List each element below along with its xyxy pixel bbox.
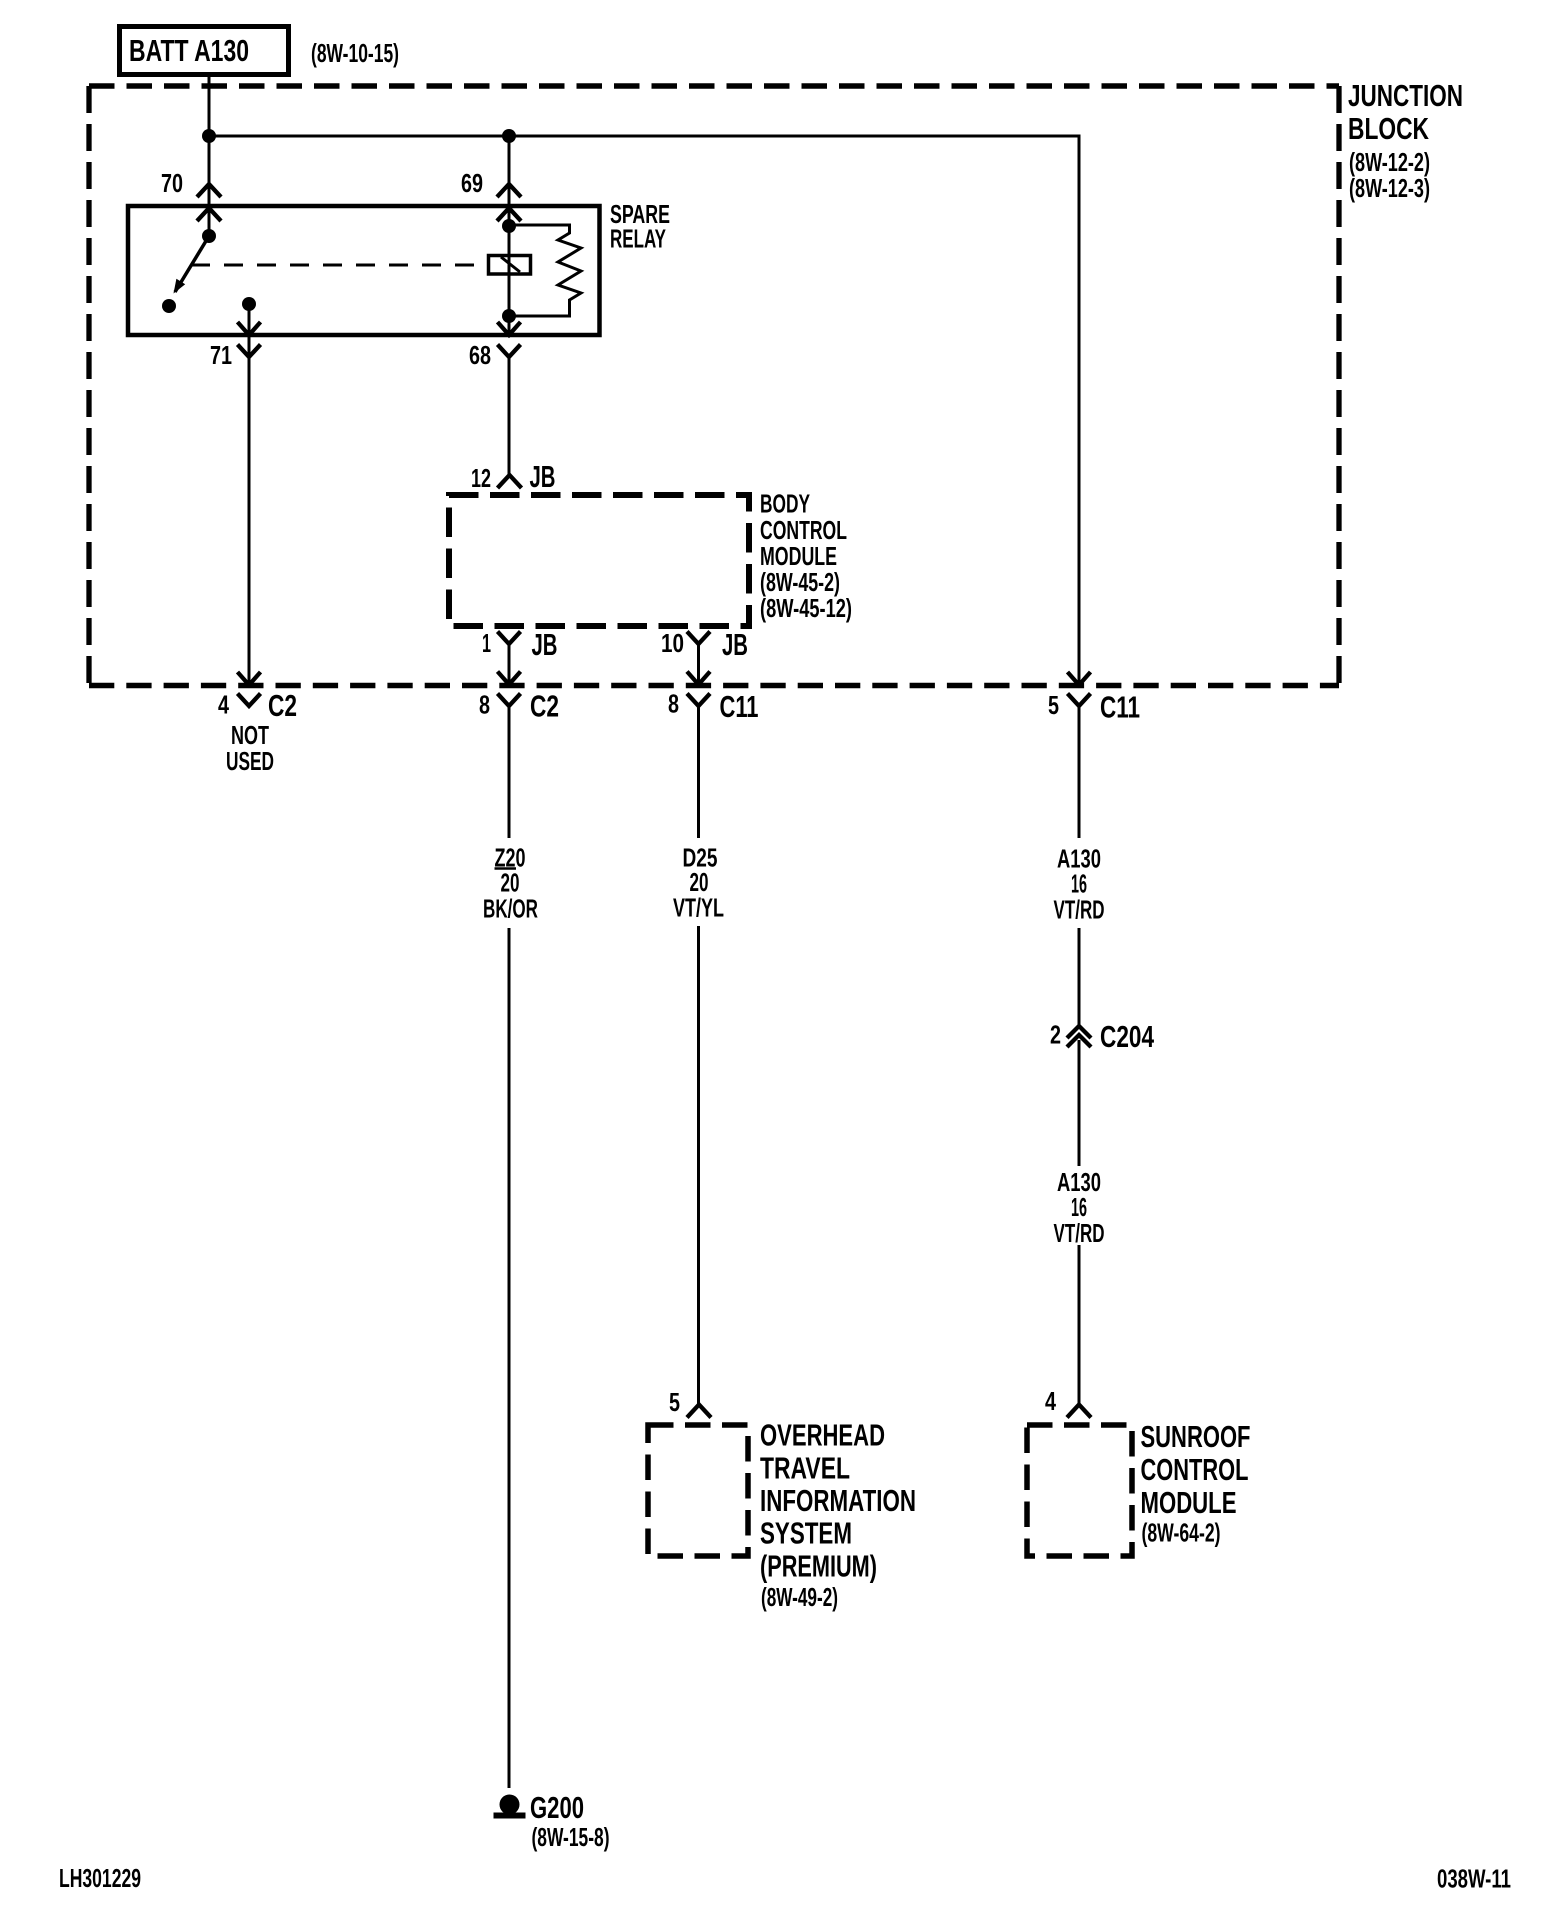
svg-text:BATT A130: BATT A130 [129,33,249,68]
overhead travel information system dashed box [648,1425,748,1556]
svg-text:OVERHEAD: OVERHEAD [760,1418,885,1453]
svg-text:JUNCTION: JUNCTION [1348,78,1463,113]
svg-text:5: 5 [669,1389,680,1417]
svg-text:JB: JB [530,459,556,494]
svg-text:VT/RD: VT/RD [1054,897,1105,925]
svg-text:8: 8 [668,691,679,719]
svg-text:LH301229: LH301229 [59,1865,141,1893]
ground G200 symbol [494,1795,526,1819]
svg-text:JB: JB [532,627,558,662]
svg-text:BODY: BODY [760,491,810,519]
wire Z20 ground run [508,928,511,1788]
svg-text:C204: C204 [1100,1019,1155,1054]
connector C204 pin 2 double chevron [1067,1026,1091,1047]
relay switch arm arrowhead [174,279,186,294]
svg-text:RELAY: RELAY [610,226,666,254]
svg-text:8: 8 [479,692,490,720]
relay coil bottom node [502,309,516,323]
svg-text:(8W-12-2): (8W-12-2) [1349,149,1430,177]
svg-text:A130: A130 [1057,846,1101,874]
OTIS module name [760,1418,916,1584]
pin 1 arrow at junction border [498,672,521,685]
pin 5 chevron OTIS [687,1405,711,1418]
pin 8 fork C11 [687,694,710,707]
svg-text:USED: USED [226,748,274,776]
svg-text:69: 69 [461,170,483,198]
pin 10 fork below BCM [687,632,710,645]
junction block dashed border [89,86,1339,686]
pin 71 internal node [242,297,256,311]
svg-text:(8W-15-8): (8W-15-8) [532,1824,610,1852]
wire label D25 20 VT/YL [673,845,724,923]
svg-text:SYSTEM: SYSTEM [760,1516,852,1551]
svg-text:CONTROL: CONTROL [1141,1452,1249,1487]
wire pin 68 down to BCM pin 12 [508,357,511,475]
svg-text:71: 71 [210,342,232,370]
wire A130 run below C204 [1078,1040,1081,1166]
wire below C2 pin 8 [508,706,511,838]
wire D25 run [697,926,700,1404]
svg-text:(8W-45-12): (8W-45-12) [760,595,852,623]
svg-text:(8W-49-2): (8W-49-2) [761,1584,838,1612]
svg-text:20: 20 [501,870,520,898]
pin 69 relay-side chevron [497,208,521,221]
svg-text:NOT: NOT [231,722,269,750]
pin 71 arrow at relay edge [238,322,261,335]
svg-text:A130: A130 [1057,1169,1101,1197]
wire label A130 16 VT/RD lower [1054,1169,1105,1248]
svg-text:4: 4 [218,692,230,720]
note NOT USED [226,722,274,776]
svg-text:1: 1 [482,630,491,658]
relay coil symbol [489,256,531,275]
svg-text:BK/OR: BK/OR [483,896,538,924]
relay K1 spare relay box [128,206,600,335]
junction block name [1348,78,1463,146]
svg-text:VT/RD: VT/RD [1054,1220,1105,1248]
pin 4 arrow at junction border [238,672,261,685]
battery feed box BATT A130 [120,27,289,75]
svg-text:(8W-12-3): (8W-12-3) [1349,175,1430,203]
relay switch arm [175,236,209,292]
svg-text:20: 20 [690,869,709,897]
svg-text:INFORMATION: INFORMATION [760,1483,916,1518]
wire from BATT A130 down to bus [208,77,211,236]
svg-text:JB: JB [722,627,748,662]
svg-text:70: 70 [161,170,183,198]
wire horizontal bus [209,135,1081,138]
svg-text:4: 4 [1045,1388,1057,1416]
wire below C11 pin 8 [697,706,700,838]
svg-text:G200: G200 [530,1790,584,1825]
wire bus drop to pin 69 [508,136,511,256]
sunroof control module dashed box [1027,1425,1132,1556]
wire pin 1 to junction border [508,644,511,685]
pin 1 fork below BCM [498,632,521,645]
svg-text:038W-11: 038W-11 [1437,1866,1511,1894]
svg-text:CONTROL: CONTROL [760,517,847,545]
svg-text:68: 68 [469,342,491,370]
relay name SPARE RELAY [610,201,670,254]
pin 68 fork below relay [498,345,521,358]
pin 71 fork below relay [238,345,261,358]
pin 70 relay-side chevron [197,208,221,221]
svg-text:10: 10 [661,630,684,658]
wire below C11 pin 5 [1078,706,1081,838]
relay switch common node [202,229,216,243]
pin 5 fork C11 [1068,694,1091,707]
svg-text:MODULE: MODULE [760,543,837,571]
pin 4 fork C2 [238,694,261,707]
pin 8 fork C2 [498,694,521,707]
pin 70 connector chevron [197,184,221,197]
relay switch lower contact [162,299,176,313]
wire bus right drop to C11 pin 5 [1078,136,1081,685]
svg-text:C11: C11 [720,689,759,724]
wire label A130 16 VT/RD upper [1054,846,1105,925]
body control module dashed box [449,495,749,626]
pin 4 chevron sunroof [1067,1405,1091,1418]
wire pin 71 drop [248,304,251,685]
svg-text:12: 12 [471,465,491,493]
svg-text:(8W-10-15): (8W-10-15) [311,40,399,68]
svg-text:VT/YL: VT/YL [673,895,724,923]
relay suppression resistor [509,225,581,316]
svg-text:C11: C11 [1100,690,1140,725]
svg-text:16: 16 [1071,871,1087,899]
svg-text:5: 5 [1048,692,1059,720]
svg-text:2: 2 [1050,1022,1061,1050]
svg-text:16: 16 [1071,1194,1087,1222]
svg-text:C2: C2 [530,689,559,724]
pin 69 connector chevron [497,184,521,197]
svg-text:TRAVEL: TRAVEL [760,1450,850,1485]
relay actuation dashed link [191,264,488,267]
svg-text:(PREMIUM): (PREMIUM) [760,1549,877,1584]
node junction dot mid [502,129,516,143]
sunroof module name [1141,1419,1251,1520]
body control module name [760,491,847,572]
pin 12 chevron [498,475,522,488]
wire A130 run to sunroof module [1078,1245,1081,1404]
relay coil top node [502,219,516,233]
pin 5 arrow at junction border [1068,672,1091,685]
wire label Z20 20 BK/OR [483,845,538,924]
wire A130 run above C204 [1078,928,1081,1026]
wire pin 10 to junction border [697,644,700,685]
svg-text:C2: C2 [268,688,297,723]
pin 68 arrow at relay edge [498,322,521,335]
svg-text:BLOCK: BLOCK [1348,111,1429,146]
node junction dot left [202,129,216,143]
svg-text:MODULE: MODULE [1141,1485,1237,1520]
pin 10 arrow at junction border [687,672,710,685]
svg-text:SUNROOF: SUNROOF [1141,1419,1251,1454]
relay coil wire through coil [508,226,511,335]
svg-text:(8W-45-2): (8W-45-2) [760,569,840,597]
svg-text:(8W-64-2): (8W-64-2) [1142,1520,1221,1548]
